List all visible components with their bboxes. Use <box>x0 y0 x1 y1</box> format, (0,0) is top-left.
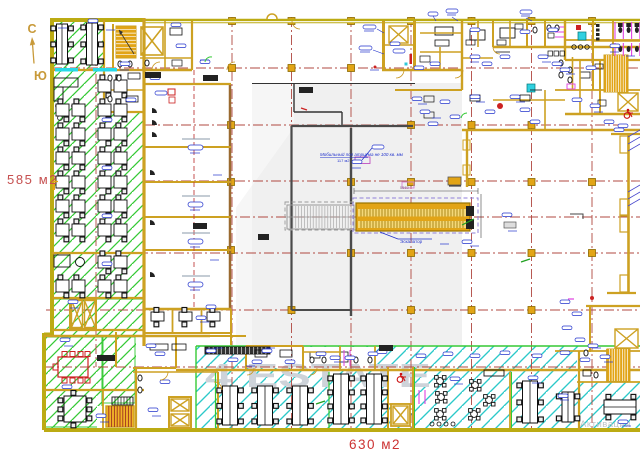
door mark near 585 <box>52 181 58 183</box>
elevator top-right corner <box>618 93 638 111</box>
labels left of elevator block <box>363 25 376 29</box>
cafe tables <box>437 378 444 385</box>
escalator gray dashed box <box>285 202 356 230</box>
escalator shaft wall <box>466 130 468 187</box>
atrium void edge lines <box>252 83 415 85</box>
bottom-right block walls <box>586 305 640 307</box>
right column wall <box>627 135 630 293</box>
band desk clusters vertical <box>223 386 238 425</box>
stair top-right <box>604 55 628 92</box>
magenta bits cafe <box>418 390 420 404</box>
rooms below WC <box>572 57 574 90</box>
door arcs <box>152 62 160 70</box>
bottom wall <box>44 428 640 432</box>
labels above top wall <box>446 9 458 13</box>
hatch bottom-left rooms green <box>44 336 103 428</box>
meeting rooms 462-545 <box>470 30 485 40</box>
wing desk rows <box>98 80 111 92</box>
hatch left wing green <box>52 19 144 300</box>
escalator label blue <box>380 232 398 239</box>
blue diagonals right edge <box>628 130 640 137</box>
escalator gray left part <box>287 205 354 229</box>
top room fixtures <box>152 108 157 113</box>
compass arrow <box>32 41 34 64</box>
lockers comb bottom-left <box>112 397 133 405</box>
WC fixtures left wing <box>108 75 112 81</box>
kitchen rooms row <box>143 309 145 345</box>
round stools <box>56 104 61 109</box>
WC stalls row B <box>593 40 640 42</box>
dubbing room labels <box>182 138 210 140</box>
stair bottom-right <box>607 349 630 381</box>
stairs bottom-left striped <box>106 406 134 427</box>
wheelchair symbol red <box>624 113 630 119</box>
hatch left lower green <box>52 300 144 336</box>
top-right block walls <box>461 21 463 90</box>
outer top wall <box>51 18 145 22</box>
band top green line <box>196 345 640 347</box>
top-right extra room walls <box>477 21 479 47</box>
elevator A top-left <box>141 27 163 55</box>
elevator main right (top) <box>382 21 385 70</box>
dimension lines escalator <box>354 190 478 192</box>
dark label boxes <box>145 72 161 78</box>
elevator band center <box>391 404 410 426</box>
top band rooms x300-400 fixtures <box>310 352 320 358</box>
svg-text:Ю: Ю <box>34 69 47 83</box>
couches mid-left room <box>150 344 168 350</box>
machine box left of escalator box <box>448 177 461 185</box>
top-left core walls <box>112 24 114 70</box>
elevator bottom-right <box>615 329 638 348</box>
white cutouts in band <box>246 347 303 368</box>
magenta left group <box>555 26 564 28</box>
top-right fixtures <box>547 25 551 31</box>
blue pills scatter <box>60 338 70 342</box>
band horizontal tables <box>562 392 574 422</box>
svg-text:630 м2: 630 м2 <box>349 437 401 452</box>
green door marks <box>205 57 212 62</box>
escalator orange main <box>356 203 470 231</box>
columns on grid <box>228 18 596 314</box>
stair core top-left wing <box>116 26 136 58</box>
top-middle rooms <box>164 21 166 70</box>
wing top vertical desks <box>57 24 68 64</box>
svg-text:Мобильный пол атриума не 100 к: Мобильный пол атриума не 100 кв. мм <box>320 151 403 157</box>
cyan reception bars <box>55 68 78 72</box>
left wing interior walls <box>142 18 145 346</box>
elevator bottom-left block <box>169 397 191 428</box>
escalator dashed box <box>353 198 478 233</box>
bottom-left rooms walls <box>175 336 177 368</box>
showers cyan <box>527 84 535 92</box>
wing lounge <box>54 255 70 267</box>
6 chair table bottom-left <box>64 396 86 422</box>
WC bottom-left <box>138 375 142 381</box>
bottom-right fixtures <box>584 350 588 356</box>
red dot fixtures <box>590 296 594 300</box>
red dashed fire line <box>193 70 195 310</box>
WC stalls row A <box>614 22 616 39</box>
L mark <box>570 214 583 219</box>
hatch bottom band cyan <box>196 346 640 428</box>
svg-text:5560: 5560 <box>400 185 410 190</box>
open area small label group <box>504 222 516 228</box>
band mid rooms walls <box>339 346 341 370</box>
band long wall <box>176 369 640 372</box>
couch room 420-462 <box>435 27 453 35</box>
door bump top wall <box>267 14 277 19</box>
top-left core extra <box>140 57 192 59</box>
atrium gray shading <box>236 83 462 345</box>
washbasins room <box>572 45 576 49</box>
dubbing rooms walls <box>229 84 232 310</box>
svg-text:585 м2: 585 м2 <box>7 172 58 187</box>
rooms 246-303 tables <box>255 350 267 357</box>
top rooms small tables x165-192 <box>170 28 182 35</box>
wheelchair band red <box>397 377 403 383</box>
svg-text:117 м2: 117 м2 <box>337 158 350 163</box>
sinks row <box>548 51 553 56</box>
sofa L <box>54 78 78 87</box>
meeting red table <box>58 357 88 377</box>
svg-text:Эскалатор: Эскалатор <box>400 239 423 244</box>
svg-text:С: С <box>28 22 37 36</box>
white room cutout WC left wing <box>104 20 144 112</box>
magenta small box right open <box>567 84 575 89</box>
atrium dark walls <box>290 126 292 310</box>
urinals along wall <box>596 24 600 27</box>
blue ticks scatter <box>64 345 73 347</box>
lockers comb band top <box>205 347 270 354</box>
band room walls <box>245 346 247 370</box>
elevator top-right of wing pair <box>70 299 96 329</box>
outer left wall <box>50 18 54 336</box>
